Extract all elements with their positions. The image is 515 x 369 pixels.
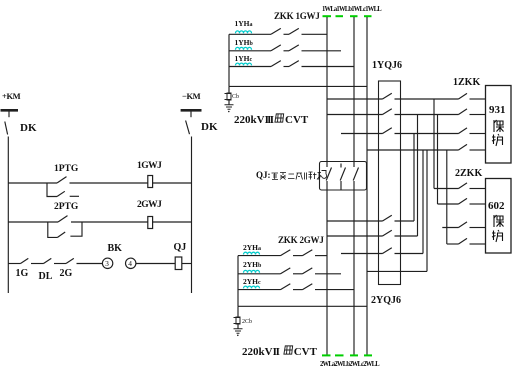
winding 2YHc	[244, 286, 260, 288]
wire riser b-cross	[417, 115, 419, 237]
node 1WLL dash	[364, 15, 372, 17]
wire neutral return riser	[426, 150, 428, 271]
label 2Cb	[242, 319, 252, 325]
wire phase a bottom seg2	[293, 255, 303, 257]
label QJ	[174, 243, 187, 253]
node 1WLb upper stub in QJ box	[340, 164, 342, 168]
relay 1YQJ6 2YQJ6 contact box	[379, 81, 401, 285]
label DK right	[201, 122, 218, 133]
label 1YHc	[235, 55, 253, 63]
contact 1ZKK row1 blade	[459, 93, 468, 99]
wire 602 row1 stub	[470, 188, 486, 190]
coil 1GWJ	[148, 176, 153, 188]
wire 1YQJ6 row2 out	[395, 114, 459, 116]
label Cb top	[232, 94, 239, 100]
ground top	[225, 105, 234, 109]
label 2PTG	[54, 203, 78, 213]
wire 602 row4 stub	[470, 243, 486, 245]
label annotation hanzi smudges	[271, 171, 321, 181]
wire riser to 2ZKK row2	[437, 115, 439, 205]
label 220kV II bus CVT	[242, 344, 317, 358]
wire 2YH neutral link	[238, 305, 367, 307]
contact 2ZKK row1 blade	[459, 183, 468, 189]
label 2ZKK	[455, 169, 482, 179]
label 602	[488, 201, 505, 212]
winding 1YHa	[236, 31, 252, 33]
contact 2GWJ c blade	[303, 284, 313, 290]
wire 602 row3 stub	[470, 227, 486, 229]
wire rung3 right	[182, 263, 192, 265]
wire phase a bottom seg1	[238, 255, 281, 257]
wire -KM tick	[190, 110, 192, 117]
wire 2ZKK row3 lead	[442, 227, 458, 229]
contact 2GWJ b blade	[303, 268, 313, 274]
label 931	[489, 105, 506, 116]
contact ZKK c blade	[271, 61, 281, 67]
wire rung1 right	[153, 182, 192, 184]
contact ZKK2 b blade	[281, 268, 291, 274]
wire bus 1WLc lower	[353, 181, 355, 355]
wire bus 1WLc upper	[353, 17, 355, 167]
winding 1YHc	[236, 63, 252, 65]
wire rung3 seg2	[31, 263, 44, 265]
node 2WLa dash	[322, 354, 331, 356]
contact 2G blade	[66, 258, 74, 263]
node BK terminal 4 circle	[126, 258, 136, 268]
label 1YHa	[235, 20, 253, 28]
wire riser to 2ZKK row1	[433, 99, 435, 189]
contact 1PTG main blade	[57, 177, 67, 183]
wire ground drop bottom	[237, 306, 239, 317]
contact QJ b blade	[340, 168, 345, 181]
contact 1PTG lower blade	[57, 191, 65, 196]
wire 2YH left rail	[237, 256, 239, 307]
wire rung1 middle	[70, 182, 149, 184]
label 220kV III bus CVT	[234, 112, 308, 126]
label 1ZKK	[453, 78, 480, 88]
winding 2YHb	[244, 270, 260, 272]
wire 1PTG lower branch	[47, 183, 57, 197]
node 2WLL dash	[364, 354, 372, 356]
label 602 bao	[491, 214, 505, 228]
wire to ground top	[228, 100, 230, 105]
wire 2ZKK row4 lead	[447, 243, 459, 245]
label 2YQJ6	[371, 296, 401, 306]
contact ZKK2 a blade	[281, 250, 291, 256]
wire 2PTG lower branch	[48, 222, 58, 237]
coil 2GWJ	[148, 217, 153, 229]
winding 2YHa	[244, 252, 260, 254]
label DK left	[20, 123, 37, 134]
wire riser to 2ZKK rows34	[446, 150, 448, 244]
contact 1GWJ c blade	[289, 61, 299, 67]
contact 1ZKK row3 blade	[459, 128, 468, 134]
wire 2YQJ6 row1 lead	[327, 220, 383, 222]
label 2WL bus names	[320, 360, 379, 368]
wire rung2 middle	[71, 221, 148, 223]
wire 602 row2 stub	[470, 203, 486, 205]
label ZKK 1GWJ	[274, 12, 320, 21]
wire bus WLL	[366, 17, 368, 355]
node 2WLc dash	[350, 354, 358, 356]
contact 1G blade	[21, 258, 29, 263]
label 1GWJ	[137, 162, 161, 172]
label 2GWJ	[137, 201, 161, 211]
wire 2PTG lower right return	[70, 222, 82, 236]
wire 1YQJ6 row1 lead	[327, 98, 383, 100]
contact 2YQJ6 row1 blade	[383, 215, 392, 221]
label terminal 4	[128, 260, 132, 268]
box 931 protection	[486, 86, 512, 164]
wire phase c top seg1	[229, 66, 271, 68]
winding 1YHb	[236, 47, 252, 49]
wire phase b bottom seg1	[238, 273, 281, 275]
label 1YHb	[235, 39, 253, 47]
wire 1YH neutral link	[229, 85, 367, 87]
contact 2GWJ a blade	[303, 250, 313, 256]
node 1WLc dash	[350, 15, 358, 17]
node BK terminal 3 circle	[102, 258, 112, 268]
contact ZKK2 c blade	[281, 284, 291, 290]
component Cb damper top	[227, 93, 231, 100]
wire phase b bottom seg2	[293, 273, 303, 275]
wire bus 1WLa upper	[326, 17, 328, 167]
contact 2YQJ6 row3 blade	[383, 248, 392, 254]
wire WLL row4 lead	[367, 149, 459, 151]
wire phase a top seg3	[302, 33, 328, 35]
wire phase c top seg2	[284, 66, 290, 68]
wire phase b top seg3	[302, 50, 342, 52]
node 1WLb dash	[336, 15, 344, 17]
wire 1YQJ6 row3 out	[395, 133, 459, 135]
label terminal 3	[105, 260, 109, 268]
wire 2YQJ6 row3 lead	[341, 253, 383, 255]
contact DL blade	[44, 258, 52, 263]
label DL	[39, 272, 53, 282]
wire 2YQJ6 row2 lead	[327, 235, 383, 237]
label 1WL bus names	[322, 5, 381, 13]
contact 2PTG main blade	[58, 216, 68, 222]
contact 1YQJ6 row1 blade	[383, 93, 392, 99]
wire neutral return tap	[367, 270, 427, 272]
switch DK left blade	[5, 122, 8, 135]
contact 1ZKK row2 blade	[459, 109, 468, 115]
wire 1YQJ6 row1 out	[395, 98, 459, 100]
contact 2ZKK row3 blade	[459, 222, 468, 228]
contact ZKK a blade	[271, 28, 281, 34]
relay QJ paralleling box	[320, 162, 367, 191]
wire phase a top seg1	[229, 33, 271, 35]
wire 2YQJ6 row2 out	[395, 235, 418, 237]
wire right rail	[191, 137, 193, 294]
contact 1ZKK row4 blade	[459, 144, 468, 150]
label 931 bao	[491, 119, 505, 133]
wire 931 row3 stub	[470, 133, 486, 135]
wire 1YQJ6 row3 lead	[341, 133, 383, 135]
contact 2ZKK row2 blade	[459, 198, 468, 204]
coil QJ	[175, 257, 182, 270]
wire phase c bottom seg3	[315, 289, 354, 291]
wire 1YQJ6 row2 lead	[327, 114, 383, 116]
label 2G	[60, 269, 73, 279]
wire 2YQJ6 row1 out	[395, 220, 415, 222]
wire phase b bottom seg3	[315, 273, 341, 275]
wire rung2 left	[8, 221, 58, 223]
contact 1YQJ6 row2 blade	[383, 109, 392, 115]
wire to ground bottom	[237, 324, 239, 329]
label BK	[108, 244, 122, 254]
wire phase a top seg2	[284, 33, 290, 35]
wire phase a bottom seg3	[315, 255, 327, 257]
glyph hook in QJ box	[322, 171, 327, 179]
wire 1WLb lower tail	[340, 181, 342, 191]
contact 1GWJ b blade	[289, 45, 299, 51]
wire ground drop top	[228, 86, 230, 93]
contact 2ZKK row4 blade	[459, 238, 468, 244]
node 2WLb dash	[335, 354, 344, 356]
label 2YHa	[243, 244, 261, 252]
wire 2ZKK row1 lead	[434, 188, 459, 190]
box 602 protection	[486, 179, 512, 254]
label 602 hu	[491, 229, 505, 243]
wire left rail	[7, 137, 9, 294]
wire 931 row2 stub	[470, 114, 486, 116]
wire bus 1WLa lower	[326, 181, 328, 355]
label 2YHc	[243, 278, 261, 286]
label 931 hu	[491, 133, 505, 147]
ground bottom	[234, 329, 243, 333]
wire 2YQJ6 row3 out	[395, 253, 424, 255]
switch DK right blade	[186, 121, 190, 135]
label -KM	[182, 92, 200, 101]
wire 2ZKK row2 lead	[438, 203, 459, 205]
node 1PTG open terminal dash	[70, 195, 79, 197]
wire 931 row1 stub	[470, 98, 486, 100]
node -KM bus bar	[181, 109, 202, 112]
wire rung3 left	[8, 263, 20, 265]
wire rung3 seg4	[77, 263, 103, 265]
wire phase b top seg2	[284, 50, 290, 52]
contact 1GWJ a blade	[289, 28, 299, 34]
wire +KM tick	[8, 110, 10, 117]
label 2YHb	[243, 261, 261, 269]
contact 2YQJ6 row2 blade	[383, 230, 392, 236]
contact QJ a blade	[326, 168, 331, 181]
wire rung1 left	[8, 182, 57, 184]
contact 1YQJ6 row3 blade	[383, 128, 392, 134]
wire phase c bottom seg1	[238, 289, 281, 291]
wire rung3 seg5	[136, 263, 175, 265]
wire phase c top seg3	[302, 66, 355, 68]
label QJ annotation	[256, 171, 271, 180]
contact 2PTG lower blade	[58, 232, 66, 237]
wire phase c bottom seg2	[293, 289, 303, 291]
wire riser c-cross	[422, 150, 424, 254]
label 1YQJ6	[372, 61, 402, 71]
contact ZKK b blade	[271, 45, 281, 51]
label 1G	[16, 269, 29, 279]
node 1WLa dash	[323, 15, 332, 17]
label +KM	[2, 92, 20, 101]
contact QJ c blade	[353, 168, 358, 181]
wire 931 row4 stub	[470, 149, 486, 151]
label 1PTG	[54, 165, 78, 175]
wire rung3 seg3	[54, 263, 66, 265]
node +KM bus bar	[1, 109, 19, 112]
wire riser a-cross	[413, 134, 415, 222]
component Cb damper bottom	[236, 317, 240, 324]
wire 1YH left rail	[228, 34, 230, 86]
wire phase b top seg1	[229, 50, 271, 52]
label ZKK 2GWJ	[278, 236, 324, 245]
wire rung2 right	[153, 221, 192, 223]
